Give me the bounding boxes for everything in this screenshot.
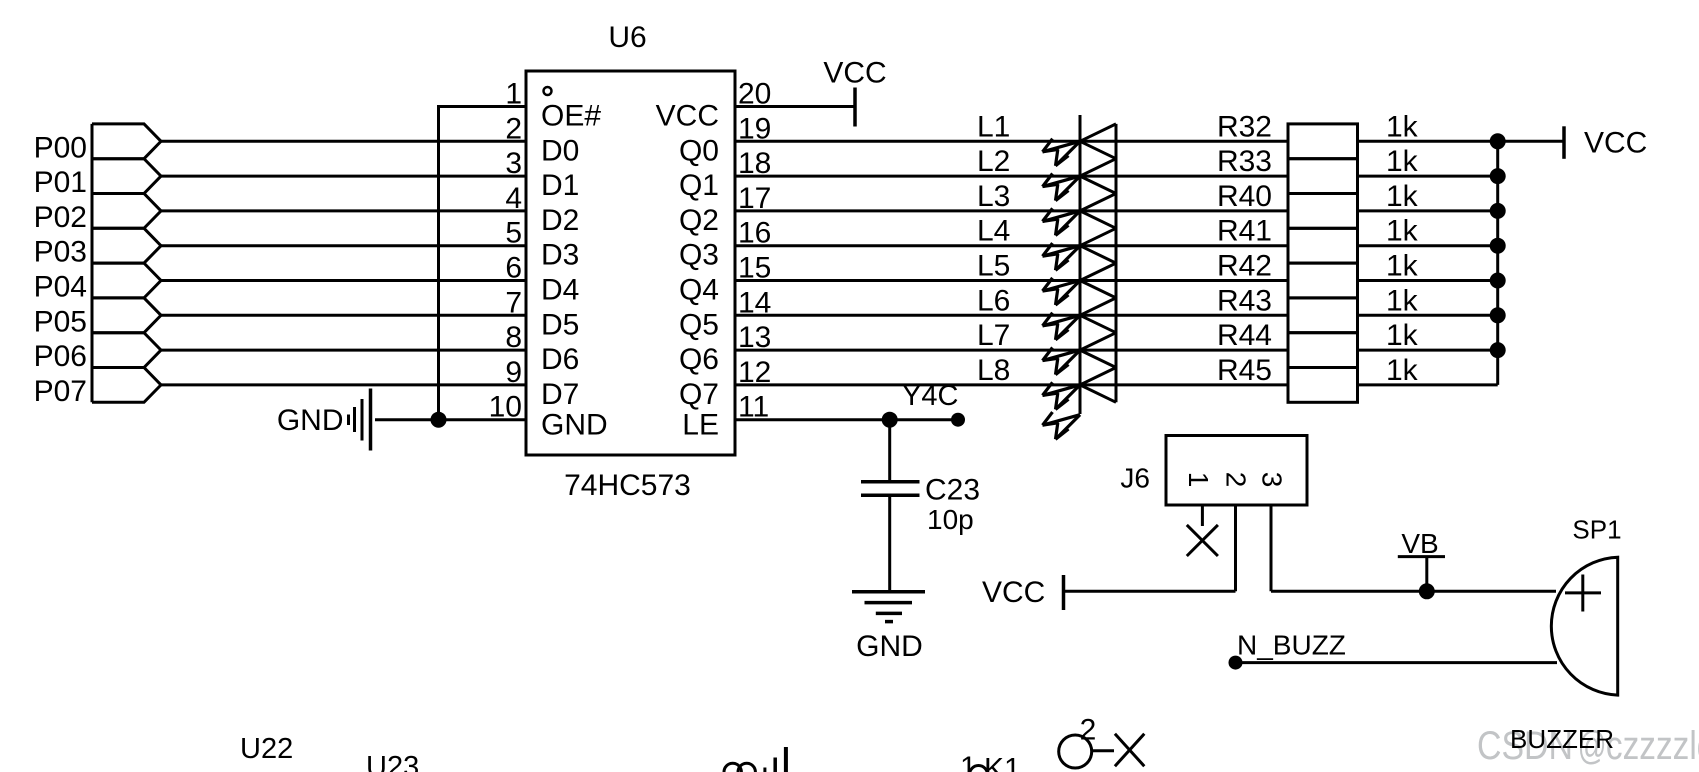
buzzer plus sign [1565, 575, 1601, 612]
svg-text:D0: D0 [541, 134, 579, 167]
svg-text:VCC: VCC [982, 576, 1045, 609]
svg-text:2: 2 [1221, 472, 1252, 488]
resistor R33 [1288, 159, 1358, 194]
resistor R40 [1288, 194, 1358, 229]
net label VB underline [1398, 555, 1445, 558]
LED column cathode bar [1079, 115, 1082, 414]
port tag P02 [92, 194, 161, 229]
svg-text:R42: R42 [1217, 250, 1272, 283]
LED L6 emission arrows [1043, 313, 1081, 340]
wire U6 pin 11 LE to node Y4C [735, 418, 958, 421]
svg-text:Q5: Q5 [679, 308, 719, 341]
svg-text:D5: D5 [541, 308, 579, 341]
LED L1 triangle [1080, 124, 1116, 159]
svg-text:R45: R45 [1217, 354, 1272, 387]
wire VB tap [1425, 557, 1428, 592]
wire P05 to U6 pin 7 [161, 314, 526, 317]
LED L2 triangle [1080, 159, 1116, 194]
svg-text:1: 1 [505, 78, 522, 111]
wire J6 pin 1 stub [1201, 505, 1204, 526]
junction VCC bus row 3 [1490, 203, 1506, 219]
svg-text:N_BUZZ: N_BUZZ [1237, 630, 1346, 661]
LED L1 emission arrows [1043, 139, 1081, 166]
svg-text:U23: U23 [366, 751, 419, 772]
relay contact circle (bottom right) [1059, 735, 1092, 768]
watermark text [1477, 722, 1699, 768]
wire relay contact [1092, 749, 1114, 752]
svg-text:R43: R43 [1217, 284, 1272, 317]
svg-text:D4: D4 [541, 274, 579, 307]
wire U6 Q3 to LED L4 [735, 244, 1080, 247]
wire U6 Q5 to LED L6 [735, 314, 1080, 317]
no-connect X (relay) [1115, 734, 1144, 766]
junction VCC bus row 4 [1490, 238, 1506, 254]
node N_BUZZ end dot [1229, 656, 1243, 670]
junction VCC bus row 6 [1490, 307, 1506, 323]
LED column bottom emission arrows [1043, 412, 1081, 439]
resistor R43 [1288, 298, 1358, 333]
svg-text:L5: L5 [977, 250, 1010, 283]
LED L3 triangle [1080, 194, 1116, 229]
LED L8 triangle [1080, 368, 1116, 403]
svg-text:BUZZER: BUZZER [1510, 724, 1614, 754]
svg-text:P06: P06 [34, 340, 87, 373]
wire U6 Q2 to LED L3 [735, 209, 1080, 212]
svg-text:4: 4 [505, 182, 522, 215]
port tag P00 [92, 124, 161, 159]
capacitor C23 plates [861, 482, 920, 496]
wire N_BUZZ to buzzer [1236, 661, 1558, 664]
wire LED L8 to resistor R45 [1080, 383, 1288, 386]
resistor R44 [1288, 333, 1358, 368]
svg-text:3: 3 [1256, 472, 1287, 488]
junction VCC bus row 2 [1490, 168, 1506, 184]
svg-text:VCC: VCC [823, 57, 886, 90]
svg-text:P02: P02 [34, 201, 87, 234]
LED L5 emission arrows [1043, 278, 1081, 305]
wire R40 to VCC bus [1358, 209, 1498, 212]
wire J6 pin 3 stub [1270, 505, 1273, 591]
wire U6 pin 10 to ground [375, 418, 526, 421]
LED L2 emission arrows [1043, 173, 1081, 200]
svg-text:1k: 1k [1386, 215, 1419, 248]
svg-text:6: 6 [505, 252, 522, 285]
svg-text:P03: P03 [34, 236, 87, 269]
resistor R45 [1288, 368, 1358, 403]
svg-text:czzzzlq: czzzzlq [1606, 723, 1699, 768]
svg-text:OE#: OE# [541, 100, 601, 133]
svg-text:Q1: Q1 [679, 169, 719, 202]
svg-text:2: 2 [505, 112, 522, 145]
junction VB [1419, 583, 1435, 599]
wire left port stack spine [91, 124, 94, 402]
wire VCC bus vertical [1496, 141, 1499, 385]
ground symbol (pin 10 net) [349, 389, 371, 451]
svg-text:L4: L4 [977, 215, 1010, 248]
svg-text:P04: P04 [34, 271, 87, 304]
wire LED L4 to resistor R41 [1080, 244, 1288, 247]
ground symbol (C23) [852, 592, 925, 622]
power symbol VCC (J6 feed) [1062, 575, 1066, 610]
LED L4 triangle [1080, 228, 1116, 263]
LED L6 triangle [1080, 298, 1116, 333]
svg-text:Q2: Q2 [679, 204, 719, 237]
LED column anode bar [1115, 124, 1118, 402]
wire P03 to U6 pin 5 [161, 244, 526, 247]
wire LED L2 to resistor R33 [1080, 175, 1288, 178]
svg-text:10p: 10p [927, 504, 974, 535]
wire LED L5 to resistor R42 [1080, 279, 1288, 282]
port tag P04 [92, 263, 161, 298]
port tag P07 [92, 368, 161, 403]
svg-text:7: 7 [505, 286, 522, 319]
op-amp: IC U6 74HC573 body [526, 71, 735, 455]
svg-text:VB: VB [1401, 528, 1438, 559]
svg-text:D6: D6 [541, 343, 579, 376]
OE# inversion dot [544, 87, 552, 95]
wire U6 pin 1 stub [439, 105, 527, 108]
wire OE# to GND vertical [437, 105, 440, 420]
wire P06 to U6 pin 8 [161, 349, 526, 352]
node Y4C end dot [951, 413, 965, 427]
svg-text:L7: L7 [977, 319, 1010, 352]
resistor R42 [1288, 263, 1358, 298]
svg-text:D2: D2 [541, 204, 579, 237]
svg-text:J6: J6 [1120, 463, 1150, 494]
wire R45 to VCC bus [1358, 383, 1498, 386]
wire R44 to VCC bus [1358, 349, 1498, 352]
wire U6 Q6 to LED L7 [735, 349, 1080, 352]
svg-text:L3: L3 [977, 180, 1010, 213]
ground symbol (partial, bottom) [724, 747, 786, 772]
wire U6 Q0 to LED L1 [735, 140, 1080, 143]
svg-text:D3: D3 [541, 239, 579, 272]
svg-text:P00: P00 [34, 131, 87, 164]
svg-text:Q4: Q4 [679, 274, 719, 307]
svg-text:1k: 1k [1386, 110, 1419, 143]
svg-text:R33: R33 [1217, 145, 1272, 178]
svg-text:U6: U6 [608, 21, 646, 54]
power symbol VCC (LED bus) [1562, 126, 1566, 159]
LED L4 emission arrows [1043, 243, 1081, 270]
wire P02 to U6 pin 4 [161, 209, 526, 212]
wire J6 pin 3 to buzzer [1271, 590, 1556, 593]
junction VCC bus row 7 [1490, 342, 1506, 358]
wire R41 to VCC bus [1358, 244, 1498, 247]
wire U6 Q1 to LED L2 [735, 175, 1080, 178]
wire C23 to ground [888, 497, 891, 591]
wire R42 to VCC bus [1358, 279, 1498, 282]
svg-text:LE: LE [682, 409, 719, 442]
svg-text:R40: R40 [1217, 180, 1272, 213]
wire VCC to J6 pin 2 [1064, 590, 1236, 593]
junction VCC bus row 1 [1490, 133, 1506, 149]
svg-text:L8: L8 [977, 354, 1010, 387]
wire R43 to VCC bus [1358, 314, 1498, 317]
svg-text:1k: 1k [1386, 319, 1419, 352]
port tag P03 [92, 228, 161, 263]
svg-text:1k: 1k [1386, 250, 1419, 283]
wire LED L7 to resistor R44 [1080, 349, 1288, 352]
svg-text:D1: D1 [541, 169, 579, 202]
wire R33 to VCC bus [1358, 175, 1498, 178]
junction OE#/GND wire [431, 412, 447, 428]
wire LED L1 to resistor R32 [1080, 140, 1288, 143]
wire U6 Q4 to LED L5 [735, 279, 1080, 282]
wire LED L3 to resistor R40 [1080, 209, 1288, 212]
svg-text:L1: L1 [977, 110, 1010, 143]
LED L7 triangle [1080, 333, 1116, 368]
svg-text:R41: R41 [1217, 215, 1272, 248]
svg-text:C23: C23 [925, 474, 980, 507]
svg-text:P05: P05 [34, 305, 87, 338]
port tag P06 [92, 333, 161, 368]
svg-text:P07: P07 [34, 375, 87, 408]
port tag P01 [92, 159, 161, 194]
wire U6 pin 20 to VCC [735, 105, 855, 108]
svg-text:9: 9 [505, 356, 522, 389]
resistor R41 [1288, 228, 1358, 263]
svg-text:VCC: VCC [1584, 126, 1647, 159]
buzzer SP1 body [1551, 557, 1617, 695]
port tag P05 [92, 298, 161, 333]
svg-text:74HC573: 74HC573 [564, 469, 691, 502]
svg-text:Q0: Q0 [679, 134, 719, 167]
svg-text:R32: R32 [1217, 110, 1272, 143]
svg-text:L6: L6 [977, 284, 1010, 317]
svg-text:P01: P01 [34, 166, 87, 199]
wire U6 Q7 to LED L8 [735, 383, 1080, 386]
wire node to C23 [888, 420, 891, 482]
svg-text:1: 1 [1183, 472, 1214, 488]
svg-text:VCC: VCC [656, 100, 719, 133]
svg-text:GND: GND [277, 404, 344, 437]
svg-text:8: 8 [505, 321, 522, 354]
wire LED L6 to resistor R43 [1080, 314, 1288, 317]
svg-text:1k: 1k [1386, 145, 1419, 178]
svg-text:SP1: SP1 [1572, 515, 1621, 545]
LED L3 emission arrows [1043, 208, 1081, 235]
no-connect X (J6 pin 1) [1187, 525, 1218, 556]
svg-text:K1: K1 [984, 753, 1021, 772]
svg-text:1k: 1k [1386, 180, 1419, 213]
svg-text:Q7: Q7 [679, 378, 719, 411]
LED L8 emission arrows [1043, 382, 1081, 409]
resistor R32 [1288, 124, 1358, 159]
LED L7 emission arrows [1043, 347, 1081, 374]
wire bus to VCC symbol [1498, 140, 1564, 143]
junction C23 tap [882, 412, 898, 428]
wire P00 to U6 pin 2 [161, 140, 526, 143]
svg-text:GND: GND [856, 630, 923, 663]
wire J6 pin 2 stub [1234, 505, 1237, 591]
svg-text:1k: 1k [1386, 354, 1419, 387]
svg-text:1k: 1k [1386, 284, 1419, 317]
svg-text:L2: L2 [977, 145, 1010, 178]
svg-text:3: 3 [505, 147, 522, 180]
power symbol VCC (pin 20) [853, 88, 857, 127]
svg-text:Q3: Q3 [679, 239, 719, 272]
relay K1 contact circle [970, 766, 988, 772]
svg-text:5: 5 [505, 217, 522, 250]
svg-text:Y4C: Y4C [902, 380, 958, 412]
junction VCC bus row 5 [1490, 273, 1506, 289]
svg-text:Q6: Q6 [679, 343, 719, 376]
svg-text:D7: D7 [541, 378, 579, 411]
svg-text:GND: GND [541, 409, 608, 442]
svg-text:2: 2 [1080, 714, 1097, 747]
svg-text:U22: U22 [240, 733, 293, 765]
wire P01 to U6 pin 3 [161, 175, 526, 178]
connector J6 body [1166, 436, 1307, 506]
wire P04 to U6 pin 6 [161, 279, 526, 282]
svg-text:R44: R44 [1217, 319, 1272, 352]
wire R32 to VCC bus [1358, 140, 1498, 143]
svg-text:10: 10 [489, 391, 522, 424]
svg-text:1: 1 [960, 751, 977, 772]
wire P07 to U6 pin 9 [161, 383, 526, 386]
LED L5 triangle [1080, 263, 1116, 298]
